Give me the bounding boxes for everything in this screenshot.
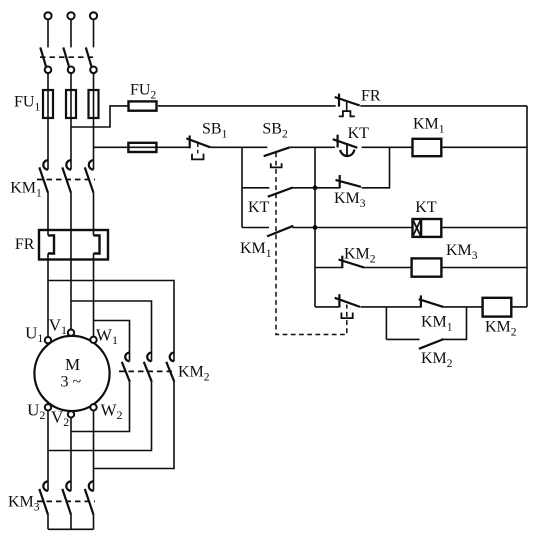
- node L1 terminal: [44, 12, 51, 19]
- svg-text:KT: KT: [248, 199, 270, 216]
- wire row5 left: [315, 267, 342, 269]
- contactor KM1 main contact pole 2: [62, 160, 71, 193]
- svg-text:M: M: [65, 355, 80, 374]
- coil KT: [413, 219, 442, 237]
- contactor KM1 main contact pole 3: [85, 160, 94, 193]
- contactor KM3 main contact pole 2: [62, 481, 71, 514]
- wire branch bottom left: [386, 338, 419, 340]
- motor terminal V1: [68, 330, 74, 336]
- KM1 linkage: [37, 179, 95, 181]
- wire right bus: [526, 106, 528, 307]
- wire row3 right riser: [362, 147, 390, 188]
- svg-text:KM1: KM1: [421, 314, 453, 334]
- coil KM2: [483, 298, 512, 317]
- pushbutton contact SB2 linked (NC): [335, 294, 360, 318]
- contactor contact KM3 (NC): [336, 175, 362, 188]
- wire delta branch from phase1: [48, 281, 174, 362]
- wire L1 drop: [47, 19, 49, 47]
- svg-text:KM2: KM2: [485, 319, 517, 339]
- KM3 linkage: [37, 500, 95, 502]
- svg-text:KM1: KM1: [10, 180, 42, 200]
- node L3 terminal: [90, 12, 97, 19]
- contactor contact KM1 interlock (NC): [419, 295, 444, 307]
- node L2 terminal: [67, 12, 74, 19]
- wire center column: [314, 147, 316, 307]
- svg-text:SB1: SB1: [202, 121, 228, 141]
- wire KM2 pole2 to U2: [48, 382, 152, 451]
- wire row2 b: [289, 146, 335, 148]
- contactor KM3 main contact pole 3: [85, 481, 94, 514]
- wire L2 drop: [70, 19, 72, 47]
- svg-text:FR: FR: [361, 88, 381, 105]
- svg-text:U2: U2: [27, 401, 45, 423]
- svg-text:KM2: KM2: [344, 245, 376, 265]
- motor M body: [34, 336, 109, 411]
- wire delta branch from phase3: [94, 321, 130, 362]
- svg-text:KM1: KM1: [240, 240, 272, 260]
- wire L2 to fuse and KM1: [70, 73, 72, 170]
- svg-text:KT: KT: [348, 125, 370, 142]
- wire left column: [241, 147, 243, 227]
- switch QS linkage: [40, 56, 96, 58]
- wire row4 left: [242, 227, 269, 229]
- FR heater element phase 1: [48, 235, 54, 253]
- svg-text:SB2: SB2: [262, 121, 288, 141]
- wire top rail left: [158, 105, 336, 107]
- svg-text:W1: W1: [96, 325, 118, 347]
- fuse FU1 pole 1: [43, 90, 53, 118]
- wire KM1 pole1 to FR: [47, 193, 49, 236]
- wire V2 down: [70, 418, 72, 491]
- wire row3 mid: [292, 187, 339, 189]
- contactor KM3 main contact pole 1: [39, 481, 48, 514]
- svg-text:FU1: FU1: [14, 94, 40, 114]
- wire KM2 pole1 to V2: [71, 382, 130, 432]
- svg-text:KM3: KM3: [334, 190, 366, 210]
- contactor contact KM2 selfhold (NO): [419, 339, 444, 349]
- svg-text:FU2: FU2: [130, 81, 156, 101]
- contactor KM2 main contact pole 1: [122, 353, 130, 382]
- svg-text:V1: V1: [49, 315, 67, 337]
- motor terminal W1: [90, 337, 96, 343]
- wire L3 drop: [93, 19, 95, 47]
- wire W2 down: [93, 411, 95, 491]
- wire branch drop: [385, 307, 387, 340]
- FR heater element phase 3: [94, 235, 100, 253]
- svg-text:FR: FR: [15, 236, 35, 253]
- motor terminal V2: [68, 411, 74, 417]
- svg-text:KM3: KM3: [446, 242, 478, 262]
- wire row6 mid: [360, 306, 421, 308]
- wire KM3 pole2 stub: [70, 515, 72, 530]
- KM2 linkage: [119, 370, 176, 372]
- fuse FU2 bottom: [128, 143, 156, 152]
- wire KM1 pole3 to FR: [93, 193, 95, 236]
- switch QS pole 1: [40, 47, 51, 73]
- relay contact KT delayed (NC, delay): [333, 135, 358, 157]
- wire top rail right: [360, 105, 527, 107]
- wire control feed from phase 3: [94, 146, 190, 148]
- wire KM1 pole2 through FR to motor V1: [70, 193, 72, 329]
- contactor KM2 main contact pole 2: [144, 353, 152, 382]
- contactor KM2 main contact pole 3: [166, 353, 174, 382]
- motor terminal W2: [90, 404, 96, 410]
- coil KM1: [413, 139, 442, 156]
- thermal relay FR heaters: [39, 230, 108, 260]
- motor terminal U2: [45, 404, 51, 410]
- wire star point bus: [48, 528, 94, 530]
- svg-text:KT: KT: [415, 199, 437, 216]
- contactor KM1 main contact pole 1: [39, 160, 48, 193]
- wire FR phase1 to motor U1: [47, 254, 49, 337]
- switch QS pole 3: [86, 47, 97, 73]
- wire delta branch from phase2: [71, 301, 152, 361]
- svg-text:KM1: KM1: [413, 116, 445, 136]
- SB2 mechanical linkage: [276, 153, 347, 335]
- wire coil KM2 out: [511, 306, 527, 308]
- svg-text:W2: W2: [101, 401, 123, 423]
- wire U2 down: [47, 411, 49, 491]
- motor terminal U1: [45, 337, 51, 343]
- wire FR phase3 to motor W1: [93, 254, 95, 337]
- wire L1 to fuse and KM1: [47, 73, 49, 170]
- fuse FU1 pole 2: [66, 90, 76, 118]
- svg-text:KM2: KM2: [178, 364, 210, 384]
- coil KM3: [412, 258, 442, 276]
- svg-text:KM2: KM2: [421, 350, 453, 370]
- wire KM2 pole3 to W2: [94, 382, 175, 469]
- wire row4 right: [441, 227, 527, 229]
- node dot row3: [313, 185, 318, 190]
- wire row2 a: [210, 146, 267, 148]
- wire row6 right: [443, 306, 482, 308]
- wire row4 mid: [293, 227, 413, 229]
- switch QS pole 2: [63, 47, 74, 73]
- wire row3 left: [242, 187, 269, 189]
- svg-text:3 ~: 3 ~: [61, 374, 82, 391]
- pushbutton SB1 (NC stop): [186, 136, 210, 160]
- pushbutton SB2 (NO start): [264, 147, 290, 167]
- contactor contact KM2 interlock (NC): [339, 256, 365, 269]
- wire KM3 pole3 stub: [93, 515, 95, 530]
- wire row2 d: [441, 146, 527, 148]
- fuse FU1 pole 3: [89, 90, 99, 118]
- wire KM3 pole1 stub: [47, 515, 49, 530]
- wire row5 right: [441, 267, 527, 269]
- wire row2 c: [362, 146, 413, 148]
- svg-text:KM3: KM3: [8, 494, 40, 514]
- wire control feed from phase 2: [71, 106, 128, 127]
- contactor contact KM1 selfhold (NO): [267, 226, 293, 237]
- relay contact FR (NC): [335, 94, 360, 117]
- wire row6 left: [315, 306, 339, 308]
- svg-text:U1: U1: [25, 323, 43, 345]
- fuse FU2 top: [129, 101, 157, 110]
- node dot row4: [313, 225, 318, 230]
- relay contact KT (NO): [268, 188, 293, 197]
- wire branch bottom right riser: [443, 307, 467, 340]
- wire L3 to fuse and KM1: [93, 73, 95, 170]
- wire row5 mid: [364, 267, 411, 269]
